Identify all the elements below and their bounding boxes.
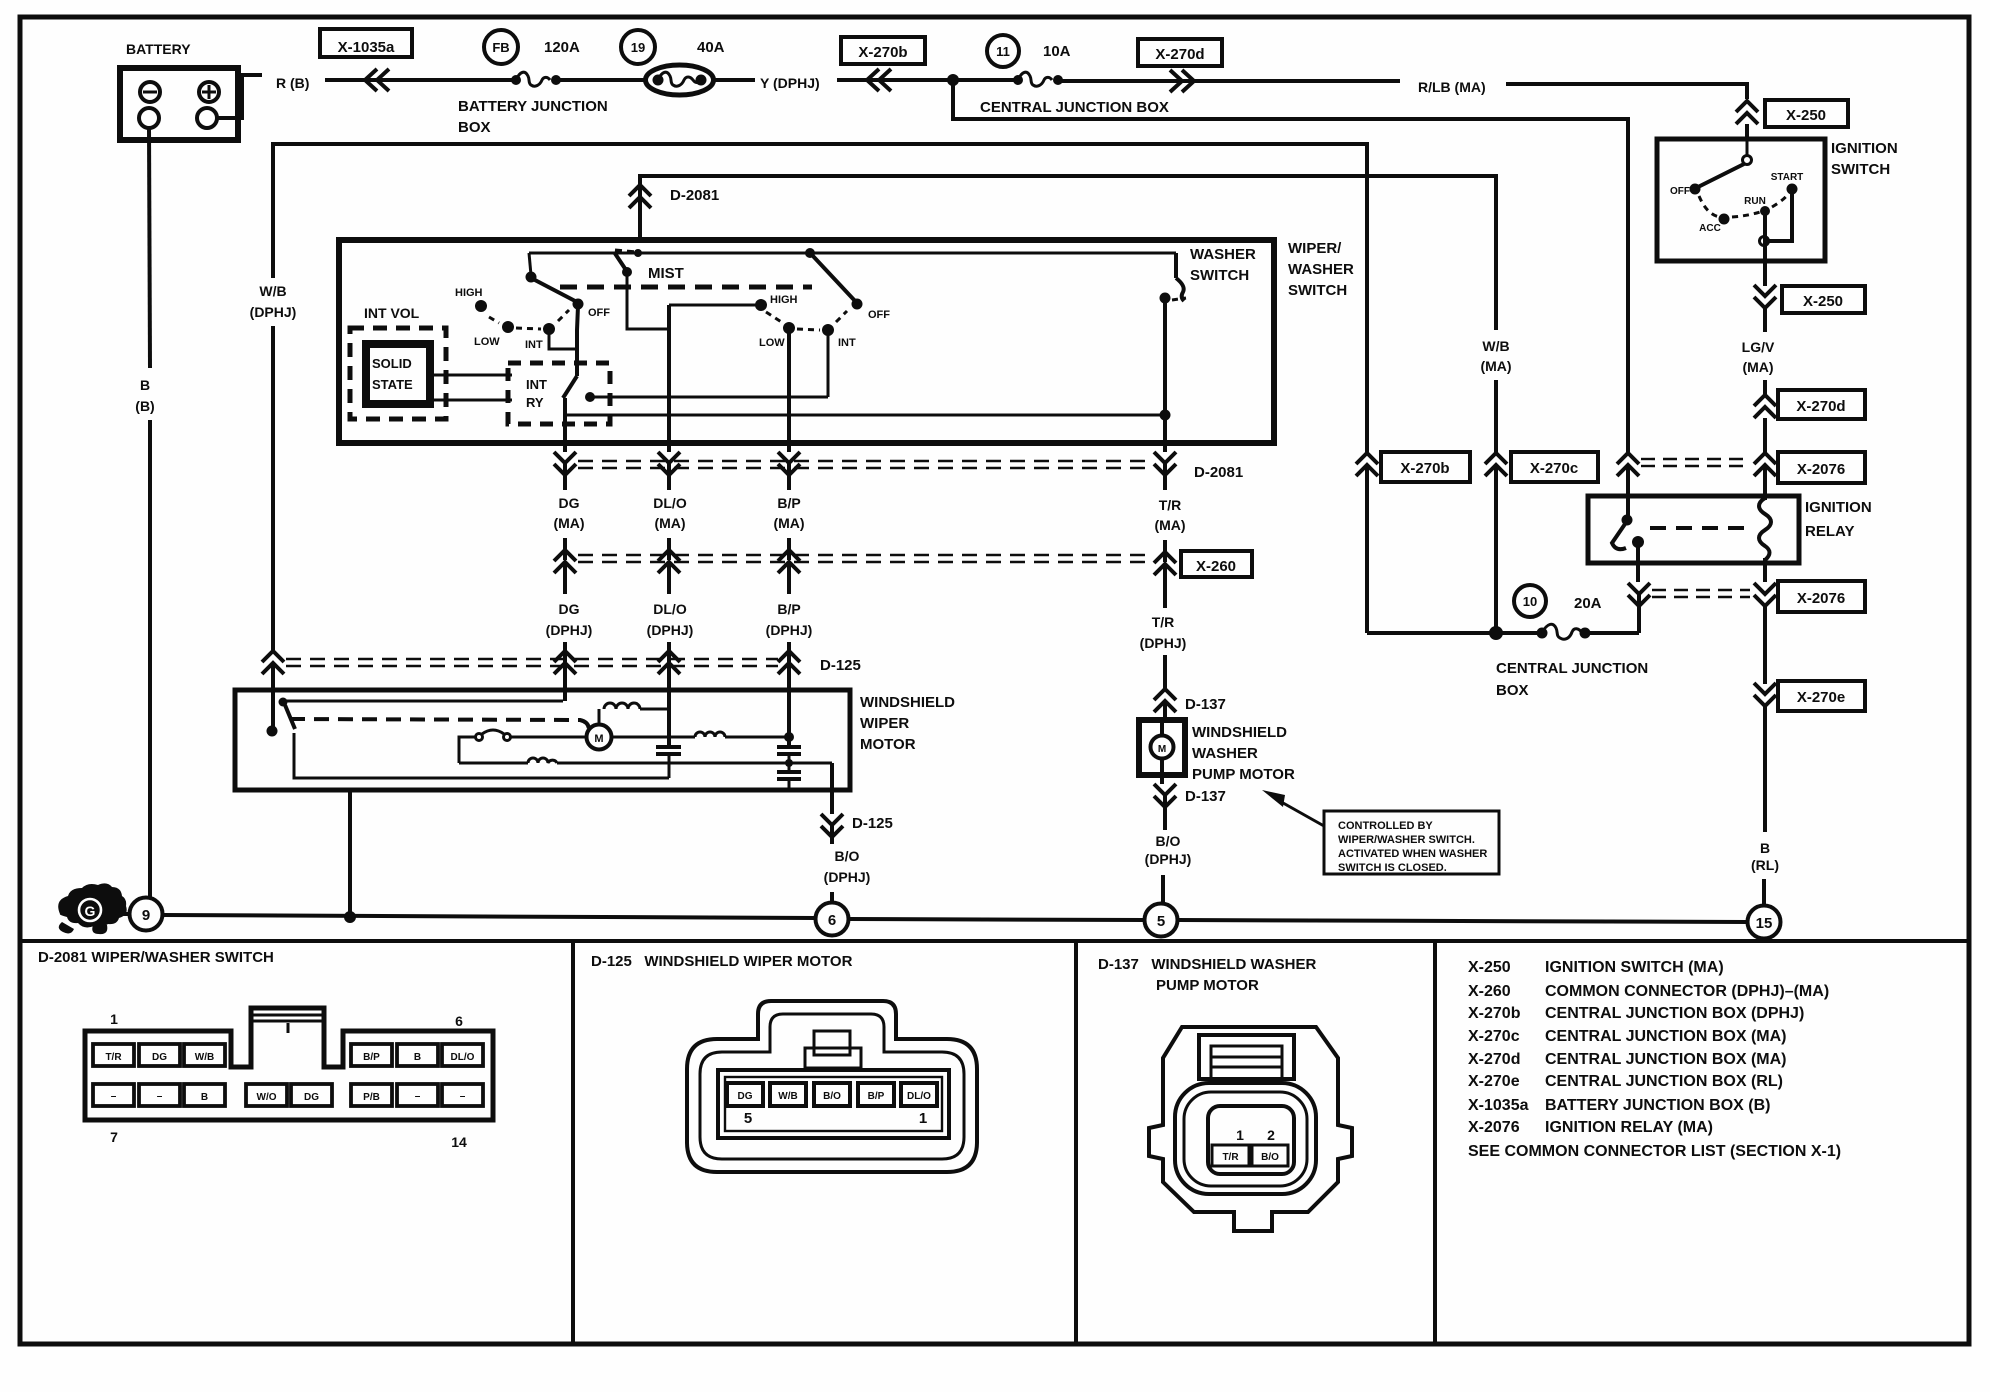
wire common bus inside switch: [529, 252, 1176, 255]
panel divider 2: [1074, 941, 1078, 1344]
svg-text:DG: DG: [559, 601, 580, 617]
svg-text:CENTRAL JUNCTION BOX (RL): CENTRAL JUNCTION BOX (RL): [1545, 1073, 1783, 1090]
fuse 10 20A in CJB: [1514, 585, 1602, 617]
wire ground bus 5 to 15: [1178, 920, 1747, 922]
connector arrow D-2081 up feed: [629, 185, 651, 208]
svg-text:R/LB (MA): R/LB (MA): [1418, 79, 1486, 95]
svg-text:6: 6: [828, 912, 836, 929]
svg-text:LOW: LOW: [474, 336, 500, 348]
wire R/LB to ignition switch: [1506, 84, 1747, 99]
fusible link 19 40A: [621, 30, 725, 95]
svg-text:B/P: B/P: [363, 1052, 380, 1063]
svg-text:CENTRAL JUNCTION: CENTRAL JUNCTION: [1496, 660, 1648, 677]
svg-text:10A: 10A: [1043, 43, 1071, 60]
wire to B(RL): [1763, 706, 1767, 832]
svg-text:X-270c: X-270c: [1530, 460, 1578, 477]
wire CJB junction down right to relay column: [953, 80, 1628, 452]
wire to LG/V: [1763, 308, 1767, 332]
svg-text:Y (DPHJ): Y (DPHJ): [760, 75, 820, 91]
svg-text:X-2076: X-2076: [1468, 1119, 1520, 1136]
panel divider 1: [571, 941, 575, 1344]
svg-text:X-270b: X-270b: [1400, 460, 1449, 477]
pin blank 7: [93, 1084, 134, 1106]
svg-text:G: G: [85, 903, 96, 919]
connector arrow D-137 down: [1154, 784, 1176, 830]
svg-text:DG: DG: [559, 495, 580, 511]
svg-text:HIGH: HIGH: [455, 287, 483, 299]
wire LG/V into relay: [1763, 465, 1767, 500]
svg-text:R (B): R (B): [276, 75, 309, 91]
svg-text:X-250: X-250: [1468, 959, 1511, 976]
connector arrows D-125 up x4: [262, 651, 284, 690]
svg-text:LOW: LOW: [759, 337, 785, 349]
svg-text:W/O: W/O: [257, 1092, 277, 1103]
breaker contact left of M: [459, 730, 587, 763]
connector drawing D-137: [1149, 1027, 1352, 1231]
wire B(RL) to node 15: [1762, 879, 1766, 905]
wire X-270d to X-2076: [1763, 418, 1767, 453]
svg-text:5: 5: [1157, 913, 1165, 930]
wire park bus lower: [294, 733, 669, 778]
pin W/B: [184, 1044, 225, 1066]
junction node ground bus: [344, 911, 356, 923]
node 6: [816, 903, 849, 936]
svg-text:OFF: OFF: [588, 307, 610, 319]
connector arrows X-260 up x4: [554, 550, 576, 594]
svg-text:WINDSHIELD: WINDSHIELD: [1192, 724, 1287, 741]
windshield washer pump motor: [1139, 720, 1185, 784]
wire D-2081 feed from switch to W/B(MA): [640, 176, 1496, 330]
pin DL/O: [442, 1044, 483, 1066]
pin B/O motor: [814, 1083, 850, 1106]
wire Y(DPHJ) to junction: [837, 78, 953, 82]
svg-text:BOX: BOX: [458, 119, 491, 136]
svg-text:(DPHJ): (DPHJ): [824, 869, 871, 885]
svg-text:ACC: ACC: [1699, 223, 1721, 234]
svg-text:(MA): (MA): [1742, 359, 1773, 375]
connector D-2081 crossing row: [565, 443, 1165, 468]
pin B/O pump: [1252, 1145, 1288, 1166]
wire B/O output drop inside motor: [830, 763, 834, 790]
svg-text:X-270e: X-270e: [1797, 689, 1845, 706]
connector arrow X-2076 down left: [1628, 583, 1650, 633]
wire right INT down: [827, 332, 830, 397]
note arrow: [1262, 790, 1324, 826]
connector drawing D-2081: [85, 1008, 493, 1150]
wire solid state to INT RY lower: [434, 399, 512, 402]
svg-text:RY: RY: [526, 395, 544, 410]
wire DG output inside box: [563, 415, 567, 443]
svg-text:CENTRAL JUNCTION BOX (MA): CENTRAL JUNCTION BOX (MA): [1545, 1028, 1786, 1045]
connector drawing D-125: [687, 1001, 977, 1172]
svg-text:D-2081: D-2081: [1194, 464, 1243, 481]
svg-text:DG: DG: [152, 1052, 167, 1063]
svg-text:–: –: [111, 1091, 117, 1102]
connector arrow D-125 down: [821, 814, 843, 844]
capacitor DL/O: [656, 747, 681, 778]
connector arrow D-137 up: [1154, 689, 1176, 722]
pin W/O: [246, 1084, 287, 1106]
svg-text:OFF: OFF: [1670, 186, 1690, 197]
svg-text:(MA): (MA): [773, 515, 804, 531]
svg-text:CONTROLLED BY: CONTROLLED BY: [1338, 820, 1433, 832]
connector X-2076 crossing dashes lower: [1652, 590, 1750, 597]
svg-text:WASHER: WASHER: [1190, 246, 1256, 263]
svg-text:FB: FB: [492, 40, 509, 55]
svg-text:–: –: [157, 1091, 163, 1102]
svg-text:(MA): (MA): [553, 515, 584, 531]
connector arrow X-270e down: [1754, 683, 1776, 706]
wire W/B(DPHJ) from top bus down: [250, 144, 1367, 650]
pin T/R: [93, 1044, 134, 1066]
connector box X-270d lower: [1778, 390, 1865, 419]
battery BATTERY: [120, 41, 238, 140]
connector arrows D-2081 down x4: [554, 452, 576, 490]
connector box X-270d top: [1138, 39, 1222, 66]
connector arrow X-2076 up right: [1754, 453, 1776, 476]
svg-text:BATTERY JUNCTION BOX (B): BATTERY JUNCTION BOX (B): [1545, 1097, 1770, 1114]
svg-text:D-137: D-137: [1185, 696, 1226, 713]
pin B row2: [184, 1084, 225, 1106]
connector arrow X-270b up: [1356, 453, 1378, 476]
svg-text:B: B: [414, 1052, 421, 1063]
pin DG: [139, 1044, 180, 1066]
svg-text:X-270d: X-270d: [1155, 46, 1204, 63]
wiper motor internals: [267, 690, 833, 790]
wire fuse 11 to R/LB: [1058, 79, 1400, 83]
svg-text:D-2081 WIPER/WASHER SWITCH: D-2081 WIPER/WASHER SWITCH: [38, 949, 274, 966]
connector D-125 crossing row: [286, 642, 789, 666]
svg-text:WIPER/WASHER SWITCH.: WIPER/WASHER SWITCH.: [1338, 834, 1475, 846]
svg-text:LG/V: LG/V: [1742, 339, 1775, 355]
svg-text:WINDSHIELD: WINDSHIELD: [860, 694, 955, 711]
svg-text:19: 19: [631, 40, 645, 55]
svg-text:WIPER/: WIPER/: [1288, 240, 1342, 257]
INT VOL dashed box: [350, 328, 446, 419]
svg-text:120A: 120A: [544, 39, 580, 56]
windshield wiper motor box: [235, 690, 850, 790]
svg-text:7: 7: [110, 1129, 118, 1145]
svg-text:X-270d: X-270d: [1468, 1051, 1520, 1068]
svg-text:(B): (B): [135, 398, 154, 414]
svg-text:P/B: P/B: [363, 1092, 380, 1103]
connector box X-1035a: [320, 29, 412, 57]
svg-text:SEE COMMON CONNECTOR LIST (SEC: SEE COMMON CONNECTOR LIST (SECTION X-1): [1468, 1143, 1841, 1160]
svg-text:SWITCH: SWITCH: [1288, 282, 1347, 299]
pin blank 13: [397, 1084, 438, 1106]
svg-text:1: 1: [919, 1110, 927, 1127]
svg-text:X-1035a: X-1035a: [338, 39, 395, 56]
INT RY dashed box: [508, 363, 610, 424]
svg-text:CENTRAL JUNCTION BOX: CENTRAL JUNCTION BOX: [980, 99, 1169, 116]
bottom panel divider line: [20, 939, 1969, 943]
svg-text:B/O: B/O: [1261, 1152, 1279, 1163]
node 9: [130, 898, 163, 931]
svg-text:MIST: MIST: [648, 265, 684, 282]
svg-text:D-125 WINDSHIELD WIPER MOTOR: D-125 WINDSHIELD WIPER MOTOR: [591, 953, 853, 970]
svg-text:WIPER: WIPER: [860, 715, 909, 732]
svg-text:RELAY: RELAY: [1805, 523, 1854, 540]
svg-text:W/B: W/B: [259, 283, 286, 299]
svg-text:RUN: RUN: [1744, 196, 1766, 207]
wire W/B(DPHJ) to CJB fuse: [1365, 465, 1369, 633]
wiper switch arm right: [805, 248, 856, 302]
svg-text:X-1035a: X-1035a: [1468, 1097, 1529, 1114]
svg-text:COMMON CONNECTOR (DPHJ)–(MA): COMMON CONNECTOR (DPHJ)–(MA): [1545, 983, 1829, 1000]
wire INT RY to right cluster INT: [590, 396, 828, 399]
wire INT RY to washer switch: [565, 414, 1165, 417]
capacitor B/P lower: [777, 763, 801, 788]
svg-text:D-137 WINDSHIELD WASHER: D-137 WINDSHIELD WASHER: [1098, 956, 1317, 973]
svg-text:HIGH: HIGH: [770, 294, 798, 306]
wire W/B into park switch: [271, 690, 275, 727]
ground symbol G: [58, 883, 126, 934]
svg-text:START: START: [1771, 172, 1804, 183]
svg-text:X-250: X-250: [1803, 293, 1843, 310]
connector arrow X-250 down: [1754, 285, 1776, 308]
svg-text:X-2076: X-2076: [1797, 590, 1845, 607]
svg-text:6: 6: [455, 1013, 463, 1029]
svg-text:X-260: X-260: [1468, 983, 1511, 1000]
svg-text:B: B: [201, 1092, 208, 1103]
connector arrow X-270d on wire: [1170, 70, 1194, 92]
node 15: [1748, 906, 1781, 939]
svg-text:–: –: [460, 1091, 466, 1102]
legend connector list: [1468, 959, 1841, 1160]
svg-text:20A: 20A: [1574, 595, 1602, 612]
svg-text:2: 2: [1267, 1127, 1275, 1143]
svg-text:SWITCH: SWITCH: [1831, 161, 1890, 178]
motor M wiper: [587, 725, 612, 750]
svg-text:X-270c: X-270c: [1468, 1028, 1520, 1045]
wire junction to fuse 11: [953, 78, 1018, 82]
wire M to B/P with choke coil: [611, 732, 787, 737]
svg-text:PUMP MOTOR: PUMP MOTOR: [1192, 766, 1295, 783]
svg-text:T/R: T/R: [1159, 497, 1182, 513]
connector arrow X-270b on wire: [867, 69, 891, 91]
svg-text:B: B: [140, 377, 150, 393]
svg-text:X-270b: X-270b: [858, 44, 907, 61]
connector box X-250 lower: [1782, 286, 1865, 313]
pin blank 14: [442, 1084, 483, 1106]
svg-text:SWITCH IS CLOSED.: SWITCH IS CLOSED.: [1338, 862, 1447, 874]
wire washer switch to T/R output: [1163, 298, 1167, 443]
wire ground bus 9 to 6: [163, 915, 815, 918]
svg-text:D-125: D-125: [852, 815, 893, 832]
wire R(B) feed: [325, 78, 512, 82]
pin P/B: [351, 1084, 392, 1106]
svg-text:5: 5: [744, 1110, 752, 1127]
ignition relay coil linkage dashed: [1650, 526, 1748, 530]
mist contact dashed: [615, 250, 636, 252]
connector box X-270b top: [841, 37, 925, 64]
svg-text:X-2076: X-2076: [1797, 461, 1845, 478]
pin DL/O motor: [901, 1083, 937, 1106]
mist arm left: [614, 252, 669, 329]
svg-text:MOTOR: MOTOR: [860, 736, 916, 753]
svg-text:INT: INT: [525, 339, 543, 351]
svg-text:D-125: D-125: [820, 657, 861, 674]
svg-text:IGNITION: IGNITION: [1805, 499, 1872, 516]
svg-text:(MA): (MA): [1480, 358, 1511, 374]
svg-text:DG: DG: [738, 1091, 753, 1102]
connector box X-260: [1181, 551, 1252, 577]
connector arrow X-250 up: [1736, 101, 1758, 124]
svg-text:T/R: T/R: [1222, 1152, 1239, 1163]
svg-text:9: 9: [142, 907, 150, 924]
wire battery positive to R(B): [217, 75, 262, 118]
svg-text:CENTRAL JUNCTION BOX (DPHJ): CENTRAL JUNCTION BOX (DPHJ): [1545, 1005, 1804, 1022]
wire T/R to washer pump: [1163, 655, 1167, 690]
svg-text:(MA): (MA): [1154, 517, 1185, 533]
svg-text:OFF: OFF: [868, 309, 890, 321]
svg-text:X-250: X-250: [1786, 107, 1826, 124]
svg-text:STATE: STATE: [372, 377, 413, 392]
svg-text:INT VOL: INT VOL: [364, 305, 420, 321]
capacitor B/P upper: [777, 742, 801, 763]
wire fusible link to Y(DPHJ): [713, 78, 755, 82]
wire ground bus 6 to 5: [849, 919, 1144, 920]
svg-text:DL/O: DL/O: [907, 1091, 931, 1102]
svg-text:T/R: T/R: [105, 1052, 122, 1063]
wire W/B(MA) down: [1494, 380, 1498, 453]
svg-text:(RL): (RL): [1751, 857, 1779, 873]
svg-text:W/B: W/B: [778, 1091, 797, 1102]
pin DG motor: [727, 1083, 763, 1106]
wiper/washer switch box: [339, 240, 1274, 443]
wiper switch arm left: [526, 253, 578, 302]
junction node D-2081 on bus: [634, 249, 642, 257]
node 5: [1145, 904, 1178, 937]
armature coil top: [599, 703, 669, 725]
svg-text:11: 11: [996, 44, 1010, 59]
svg-text:IGNITION SWITCH (MA): IGNITION SWITCH (MA): [1545, 959, 1724, 976]
svg-text:B/P: B/P: [777, 601, 800, 617]
dashed motor linkage: [290, 719, 589, 730]
connector box X-2076 upper: [1778, 452, 1865, 483]
pin blank 8: [139, 1084, 180, 1106]
wire DL/O output: [667, 305, 671, 443]
svg-text:X-270e: X-270e: [1468, 1073, 1520, 1090]
svg-text:BOX: BOX: [1496, 682, 1529, 699]
pin B: [397, 1044, 438, 1066]
wire G to node 9: [112, 912, 129, 916]
svg-text:INT: INT: [838, 337, 856, 349]
junction node washer output: [1160, 410, 1171, 421]
park switch contact: [279, 698, 288, 707]
wiper switch positions right: HIGH LOW INT OFF: [755, 294, 890, 349]
svg-text:(DPHJ): (DPHJ): [766, 622, 813, 638]
svg-text:SWITCH: SWITCH: [1190, 267, 1249, 284]
connector X-260 crossing row: [565, 538, 1165, 562]
wire park switch bus: [283, 700, 563, 703]
svg-text:B/O: B/O: [835, 848, 860, 864]
pin W/B motor: [770, 1083, 806, 1106]
wire B/O to node 5: [1161, 875, 1165, 903]
svg-text:1: 1: [1236, 1127, 1244, 1143]
svg-text:B/P: B/P: [777, 495, 800, 511]
connector arrow X-2076 down right: [1754, 583, 1776, 606]
wire X-250 into ignition switch: [1745, 124, 1749, 141]
wire right HIGH to DL/O: [669, 304, 761, 307]
svg-text:(DPHJ): (DPHJ): [1140, 635, 1187, 651]
pin DG row2: [291, 1084, 332, 1106]
ignition relay coil hook: [1759, 498, 1771, 560]
wire motor case to ground bus: [348, 790, 352, 917]
wire relay out to X-270e: [1763, 606, 1767, 684]
svg-text:INT: INT: [526, 377, 547, 392]
svg-text:W/B: W/B: [1482, 338, 1509, 354]
wire OFF/INT to INT RY: [549, 331, 577, 349]
connector arrow X-270d up: [1754, 395, 1776, 418]
wire B/O below motor: [830, 790, 834, 814]
connector box X-250 top: [1765, 100, 1848, 127]
panel divider 3: [1433, 941, 1437, 1344]
washer switch arm: [1160, 253, 1187, 304]
svg-text:W/B: W/B: [195, 1052, 214, 1063]
wire ignition switch to X-250: [1763, 261, 1767, 286]
junction node CJB feed: [947, 74, 959, 86]
svg-text:(DPHJ): (DPHJ): [1145, 851, 1192, 867]
wire W/B(MA) to junction: [1494, 465, 1498, 633]
svg-text:DL/O: DL/O: [653, 495, 687, 511]
note box controlled by wiper/washer switch: [1324, 811, 1499, 874]
wire LG/V to X-270d: [1763, 380, 1767, 394]
connector arrow X-270c up: [1485, 453, 1507, 476]
svg-text:ACTIVATED WHEN WASHER: ACTIVATED WHEN WASHER: [1338, 848, 1487, 860]
wire fuse to fusible link: [556, 78, 648, 82]
connector arrow X-1035a on wire: [365, 69, 389, 91]
svg-text:10: 10: [1523, 594, 1537, 609]
svg-text:X-270d: X-270d: [1796, 398, 1845, 415]
ignition relay box: [1588, 496, 1799, 563]
svg-text:WASHER: WASHER: [1288, 261, 1354, 278]
svg-text:DL/O: DL/O: [653, 601, 687, 617]
connector box X-270e: [1778, 681, 1865, 711]
svg-text:B/O: B/O: [823, 1091, 841, 1102]
wire right LOW to B/P output: [787, 330, 791, 443]
pin B/P motor: [858, 1083, 894, 1106]
svg-text:15: 15: [1756, 915, 1773, 932]
svg-text:–: –: [415, 1091, 421, 1102]
svg-text:T/R: T/R: [1152, 614, 1175, 630]
svg-text:(DPHJ): (DPHJ): [250, 304, 297, 320]
wire B/O to node 6: [830, 892, 834, 902]
svg-text:(MA): (MA): [654, 515, 685, 531]
wire lower loop with coil: [459, 758, 832, 763]
fuse FB 120A: [484, 30, 580, 86]
connector arrow X-2076 up left: [1617, 453, 1639, 498]
ignition switch internals: [1670, 141, 1803, 261]
svg-text:WASHER: WASHER: [1192, 745, 1258, 762]
svg-text:PUMP MOTOR: PUMP MOTOR: [1156, 977, 1259, 994]
svg-text:(DPHJ): (DPHJ): [647, 622, 694, 638]
svg-text:IGNITION: IGNITION: [1831, 140, 1898, 157]
svg-text:D-137: D-137: [1185, 788, 1226, 805]
pin B/P: [351, 1044, 392, 1066]
svg-text:DL/O: DL/O: [451, 1052, 475, 1063]
svg-text:M: M: [1158, 744, 1166, 755]
INT RY relay contact: [563, 366, 595, 415]
connector box X-2076 lower: [1778, 581, 1865, 612]
svg-text:SOLID: SOLID: [372, 356, 412, 371]
connector box X-270c: [1511, 452, 1598, 482]
solid state unit SOLID STATE: [366, 344, 430, 404]
ignition switch box: [1657, 139, 1825, 261]
svg-text:X-260: X-260: [1196, 558, 1236, 575]
svg-text:14: 14: [451, 1134, 467, 1150]
svg-text:X-270b: X-270b: [1468, 1005, 1521, 1022]
